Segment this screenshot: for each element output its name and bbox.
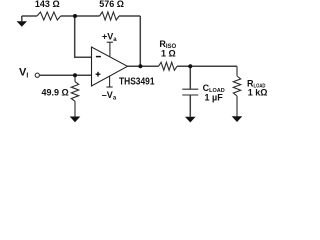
- wire feedback vertical to output: [139, 16, 141, 66]
- resistor R1 143 ohm: [37, 12, 61, 20]
- junction node Cload: [188, 64, 192, 68]
- resistor R3 49.9 ohm vertical: [71, 75, 78, 117]
- resistor R4 Riso 1 ohm: [159, 62, 178, 70]
- junction node between R1 and R2: [73, 14, 77, 18]
- capacitor C1 plates: [182, 88, 198, 90]
- resistor R5 Rload vertical: [233, 66, 240, 116]
- op-amp U1 plus input sign: [96, 73, 101, 75]
- svg-text:–Va: –Va: [102, 90, 117, 102]
- wire feedback top: [119, 15, 140, 17]
- pin +Va supply: [107, 41, 113, 43]
- capacitor C1 lead bottom: [189, 95, 191, 117]
- op-amp U1 triangle: [92, 47, 128, 86]
- ground stub top-left: [21, 16, 23, 21]
- svg-text:THS3491: THS3491: [119, 77, 155, 88]
- op-amp U1 minus input sign: [96, 56, 101, 58]
- wire inverting input vertical: [75, 16, 92, 57]
- ground arrow under R5: [232, 116, 243, 122]
- wire output: [128, 65, 159, 67]
- wire Vi input to plus input: [40, 74, 92, 76]
- ground arrow top-left: [17, 21, 27, 27]
- terminal Vi open circle: [35, 73, 39, 77]
- ground arrow under C1: [185, 117, 196, 123]
- ground arrow under R3: [70, 117, 81, 123]
- svg-text:1 µF: 1 µF: [205, 92, 224, 102]
- wire node A between R1 and R2: [61, 15, 100, 17]
- svg-text:49.9 Ω: 49.9 Ω: [42, 88, 69, 98]
- wire from Riso to Rload corner: [177, 65, 237, 67]
- wire top from ground to R1: [22, 15, 37, 17]
- pin -Va supply: [109, 76, 111, 87]
- svg-text:143 Ω: 143 Ω: [35, 0, 60, 9]
- junction node output / feedback: [138, 64, 142, 68]
- svg-text:+Va: +Va: [102, 32, 117, 44]
- resistor R2 576 ohm feedback: [100, 12, 120, 20]
- junction node Vi / R3: [73, 73, 77, 77]
- svg-text:576 Ω: 576 Ω: [99, 0, 124, 9]
- capacitor C1 Cload lead top: [189, 66, 191, 89]
- svg-text:VI: VI: [19, 66, 28, 79]
- svg-text:1 kΩ: 1 kΩ: [248, 87, 268, 97]
- svg-text:1 Ω: 1 Ω: [161, 49, 176, 59]
